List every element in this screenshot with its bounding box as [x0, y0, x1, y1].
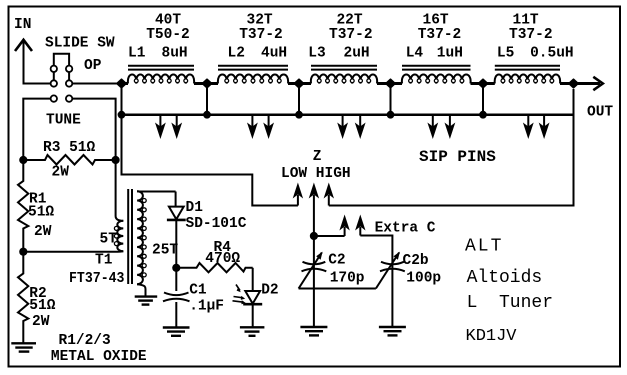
svg-text:D2: D2: [261, 283, 278, 299]
svg-text:5T: 5T: [100, 232, 118, 248]
wire C2 node to Extra C arrow: [314, 235, 345, 237]
inductor L5: [495, 66, 560, 84]
svg-text:L3: L3: [308, 46, 325, 62]
svg-text:1uH: 1uH: [437, 46, 463, 62]
junction left R3: [19, 156, 27, 164]
svg-text:OP: OP: [84, 58, 102, 74]
svg-text:51Ω: 51Ω: [29, 298, 55, 314]
svg-text:470Ω: 470Ω: [205, 251, 240, 267]
junction bus dots: [118, 111, 126, 119]
svg-text:.1µF: .1µF: [189, 299, 224, 315]
svg-text:SLIDE SW: SLIDE SW: [45, 36, 115, 52]
svg-text:T37-2: T37-2: [239, 27, 283, 43]
wire to T1 primary: [23, 251, 117, 253]
wires junctions to SIP bus: [122, 84, 484, 115]
svg-text:T37-2: T37-2: [329, 27, 373, 43]
transformer T1: [114, 160, 175, 296]
svg-text:T37-2: T37-2: [509, 27, 553, 43]
svg-text:D1: D1: [186, 200, 204, 216]
wire rotor link C2 to C2b: [299, 288, 376, 290]
inductor L4: [402, 66, 471, 84]
resistor R3: [23, 155, 115, 165]
main top wire: [122, 82, 601, 85]
junction diamonds on main line: [117, 79, 126, 88]
svg-text:IN: IN: [14, 17, 31, 33]
svg-text:LOW HIGH: LOW HIGH: [281, 166, 351, 182]
diode D1: [167, 192, 186, 268]
svg-text:2W: 2W: [32, 314, 50, 330]
svg-text:L5: L5: [497, 46, 514, 62]
svg-text:4uH: 4uH: [261, 46, 287, 62]
svg-text:SD-101C: SD-101C: [186, 216, 247, 232]
SIP pin arrows: [155, 115, 550, 139]
svg-text:Altoids: Altoids: [467, 268, 543, 288]
ground C1: [163, 328, 190, 336]
resistor R4: [176, 263, 252, 272]
node Z tap arrows: [293, 183, 334, 237]
wire right rail from OUT junction down and left: [329, 89, 574, 206]
svg-text:C2b: C2b: [403, 253, 429, 269]
svg-text:L4: L4: [406, 46, 424, 62]
svg-text:51Ω: 51Ω: [28, 205, 54, 221]
svg-text:8uH: 8uH: [162, 46, 188, 62]
Extra C arrows: [339, 215, 365, 237]
wire switch common to node A: [72, 83, 121, 85]
svg-text:T37-2: T37-2: [418, 27, 462, 43]
svg-text:L Tuner: L Tuner: [467, 293, 553, 313]
led D2: [233, 285, 263, 328]
junction R1/R2/T1: [19, 248, 27, 256]
svg-text:C1: C1: [189, 283, 207, 299]
svg-text:C2: C2: [328, 253, 345, 269]
svg-text:SIP PINS: SIP PINS: [419, 148, 496, 166]
junction C2 node: [310, 232, 318, 240]
svg-text:L2: L2: [228, 46, 245, 62]
wire IN to switch: [24, 41, 51, 84]
wire TUNE right leg: [72, 99, 115, 157]
svg-text:TUNE: TUNE: [46, 113, 81, 129]
wire R4 to D2: [252, 268, 254, 291]
svg-text:2W: 2W: [52, 165, 70, 181]
ground C2b: [379, 327, 406, 335]
svg-text:L1: L1: [128, 46, 146, 62]
svg-text:ALT: ALT: [465, 237, 503, 257]
svg-text:170p: 170p: [330, 271, 365, 287]
svg-text:2uH: 2uH: [344, 46, 370, 62]
wire Extra C to C2b: [360, 236, 392, 262]
svg-text:T1: T1: [95, 253, 113, 269]
node IN: [14, 17, 32, 51]
ground T1 secondary: [135, 297, 158, 305]
resistor R2: [18, 252, 28, 343]
inductor L3: [311, 66, 377, 84]
svg-text:FT37-43: FT37-43: [69, 271, 125, 287]
capacitor C2 variable: [299, 236, 327, 327]
ground R2: [11, 343, 36, 351]
svg-text:T50-2: T50-2: [146, 27, 190, 43]
wire SIP bus: [122, 113, 574, 116]
switch S1 SLIDE SW: [51, 54, 73, 102]
resistor R1: [18, 160, 28, 252]
capacitor C1: [163, 268, 190, 327]
svg-text:METAL OXIDE: METAL OXIDE: [51, 349, 147, 365]
junction D1/R4/C1: [172, 264, 180, 272]
svg-text:KD1JV: KD1JV: [466, 327, 518, 346]
inductor L1: [128, 66, 194, 84]
node OUT arrow: [593, 77, 603, 90]
wire TUNE left leg: [23, 99, 50, 157]
svg-text:Extra C: Extra C: [375, 221, 436, 237]
svg-text:Z: Z: [313, 149, 322, 165]
junction right R3: [112, 156, 120, 164]
svg-text:R1/2/3: R1/2/3: [59, 333, 111, 349]
svg-text:R3 51Ω: R3 51Ω: [43, 140, 96, 156]
svg-text:0.5uH: 0.5uH: [530, 46, 574, 62]
svg-text:2W: 2W: [34, 224, 52, 240]
inductor L2: [218, 66, 288, 84]
capacitor C2b variable: [376, 252, 405, 327]
svg-text:OUT: OUT: [587, 105, 613, 121]
svg-text:100p: 100p: [406, 271, 441, 287]
ground C2: [300, 327, 327, 335]
wire node A down to Z tap: [122, 115, 298, 206]
svg-text:25T: 25T: [152, 243, 178, 259]
ground D2: [240, 327, 265, 336]
